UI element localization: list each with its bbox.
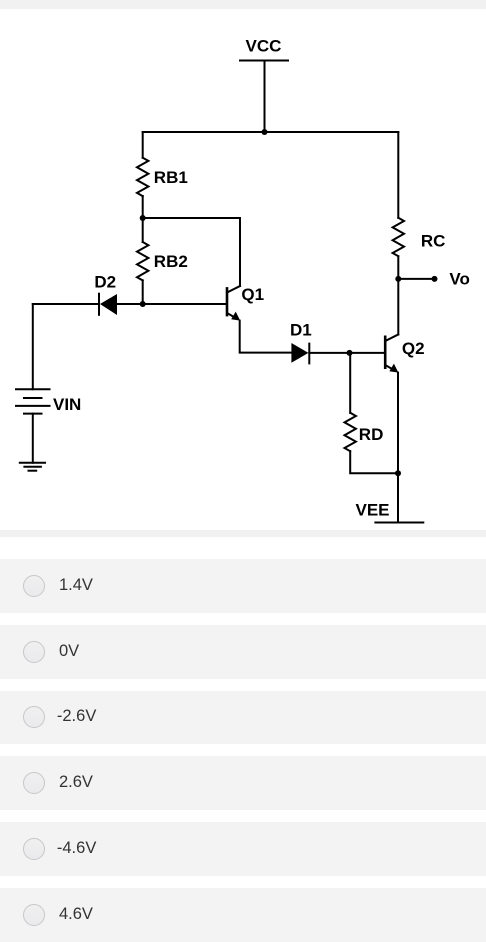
divider strip below question	[0, 530, 486, 537]
svg-text:Q2: Q2	[402, 339, 425, 358]
node Vo junction	[395, 276, 401, 282]
wire top rail	[143, 131, 399, 133]
option 4.6V	[0, 888, 486, 942]
wire VIN to ground	[32, 414, 34, 463]
wire left drop to RB1	[142, 132, 144, 158]
label Q1	[241, 285, 264, 304]
svg-text:D2: D2	[94, 273, 116, 292]
wire right rail to RC	[397, 132, 399, 218]
label D1	[290, 321, 312, 340]
ground	[20, 463, 45, 471]
power VCC bar	[240, 60, 288, 62]
option 2.6V	[0, 756, 486, 810]
label VEE	[356, 501, 390, 520]
wire RD branch	[349, 353, 351, 413]
diode D2	[99, 294, 117, 315]
label RB1	[154, 168, 188, 187]
wire RB1 to junction	[142, 196, 144, 242]
wire Q1 emitter down	[240, 321, 291, 353]
label VIN	[53, 395, 81, 414]
resistor RC	[393, 218, 404, 256]
wire D1 to Q2 base	[309, 352, 384, 354]
wire VIN to D2	[33, 303, 99, 305]
option -2.6V	[0, 691, 486, 745]
svg-text:VEE: VEE	[356, 501, 390, 520]
label RB2	[154, 252, 188, 271]
svg-text:VCC: VCC	[246, 37, 282, 56]
node VCC rail junction	[262, 129, 268, 135]
wire junction to Q1 collector	[143, 218, 240, 286]
resistor RB1	[137, 158, 148, 196]
battery VIN	[16, 389, 50, 413]
wire RD to emitter rail	[350, 451, 398, 473]
wire Q2 emitter to VEE	[397, 373, 399, 523]
label Q2	[402, 339, 425, 358]
node Vo terminal	[432, 276, 438, 282]
wire RB2 to base node	[142, 280, 144, 304]
svg-text:RB2: RB2	[154, 252, 188, 271]
label RD	[359, 425, 384, 444]
label RC	[421, 231, 446, 250]
node RB1/RB2 junction	[140, 215, 146, 221]
wire D2 to Q1 base	[117, 303, 226, 305]
label Vo	[449, 270, 469, 289]
power VEE bar	[375, 522, 423, 524]
wire Vo tap	[398, 278, 433, 280]
transistor Q2	[385, 335, 398, 373]
node RD/emitter junction	[395, 470, 401, 476]
svg-text:Q1: Q1	[241, 285, 264, 304]
svg-text:RD: RD	[359, 425, 384, 444]
svg-text:D1: D1	[290, 321, 312, 340]
resistor RD	[345, 413, 356, 451]
option 1.4V	[0, 559, 486, 613]
top gray strip	[0, 0, 486, 9]
option -4.6V	[0, 822, 486, 876]
svg-text:RC: RC	[421, 231, 446, 250]
wire VIN top	[32, 304, 34, 389]
power VCC label	[246, 37, 282, 56]
node base junction	[140, 301, 146, 307]
svg-text:RB1: RB1	[154, 168, 188, 187]
diode D1	[291, 343, 309, 363]
resistor RB2	[137, 242, 148, 280]
svg-text:VIN: VIN	[53, 395, 81, 414]
option 0V	[0, 625, 486, 679]
svg-text:Vo: Vo	[449, 270, 469, 289]
transistor Q1	[227, 286, 240, 321]
wire VCC stem	[264, 61, 266, 133]
wire RC to Vo node	[397, 256, 399, 334]
node D1/RD junction	[347, 350, 353, 356]
label D2	[94, 273, 116, 292]
